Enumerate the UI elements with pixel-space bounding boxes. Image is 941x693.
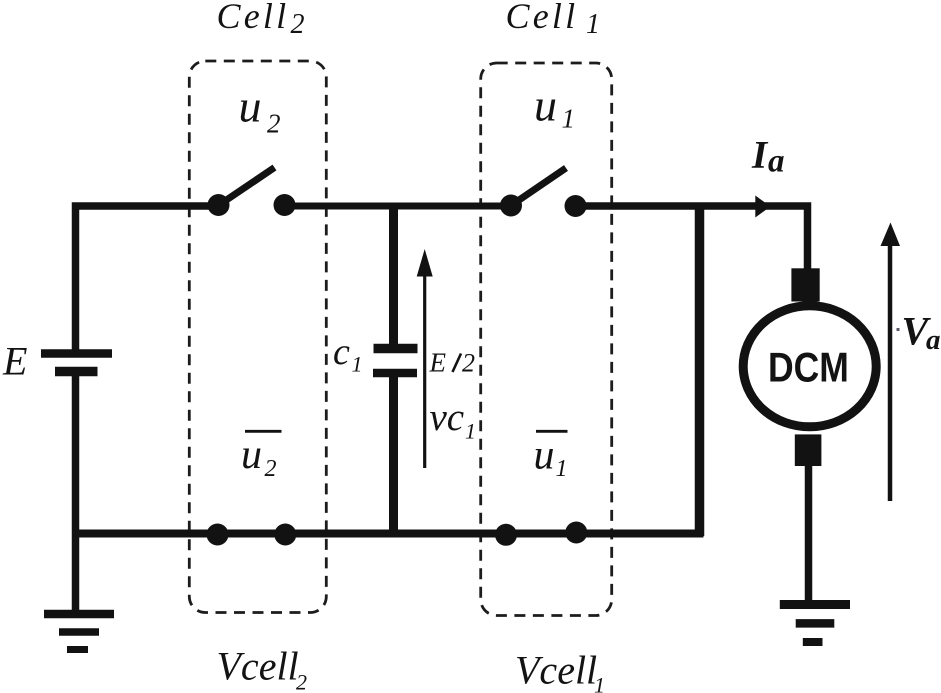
svg-text:I: I xyxy=(751,133,769,176)
svg-text:1: 1 xyxy=(352,352,363,377)
svg-text:2: 2 xyxy=(462,349,475,378)
svg-text:u: u xyxy=(534,80,557,131)
svg-text:u: u xyxy=(534,433,555,479)
svg-text:1: 1 xyxy=(586,9,600,40)
svg-text:2: 2 xyxy=(291,9,305,40)
svg-text:Vcell: Vcell xyxy=(217,644,299,689)
svg-text:2: 2 xyxy=(296,670,307,693)
svg-text:u: u xyxy=(239,81,262,132)
svg-text:a: a xyxy=(768,144,785,180)
svg-text:1: 1 xyxy=(594,672,605,693)
svg-text:1: 1 xyxy=(556,456,568,482)
svg-text:2: 2 xyxy=(267,109,281,139)
svg-text:Cell: Cell xyxy=(506,0,579,36)
svg-text:u: u xyxy=(241,432,262,478)
svg-text:vc: vc xyxy=(430,396,465,439)
svg-text:E: E xyxy=(429,348,447,378)
svg-text:DCM: DCM xyxy=(768,345,849,391)
svg-text:E: E xyxy=(2,339,27,384)
svg-text:2: 2 xyxy=(265,456,277,482)
svg-text:a: a xyxy=(926,324,941,356)
svg-text:1: 1 xyxy=(465,419,476,444)
svg-text:Vcell: Vcell xyxy=(515,648,597,693)
svg-text:1: 1 xyxy=(562,104,576,134)
svg-text:Cell: Cell xyxy=(217,0,290,36)
svg-text:c: c xyxy=(333,331,350,373)
